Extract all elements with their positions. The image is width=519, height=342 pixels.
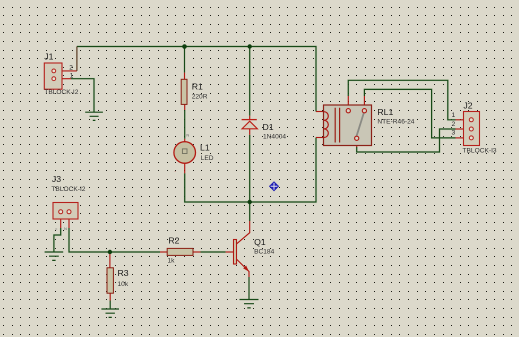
svg-text:RL1: RL1 <box>377 107 393 117</box>
svg-text:220R: 220R <box>192 93 208 100</box>
svg-text:1: 1 <box>452 112 456 119</box>
svg-text:L1: L1 <box>200 143 210 153</box>
svg-text:BC184: BC184 <box>254 249 274 256</box>
svg-text:10k: 10k <box>118 281 129 288</box>
svg-text:TBLOCK-I2: TBLOCK-I2 <box>44 89 78 96</box>
svg-text:J3: J3 <box>52 174 61 184</box>
svg-text:3: 3 <box>452 129 456 136</box>
svg-text:R2: R2 <box>168 235 179 245</box>
svg-text:D1: D1 <box>263 122 274 132</box>
svg-text:2: 2 <box>69 64 73 71</box>
svg-text:TBLOCK-I3: TBLOCK-I3 <box>463 148 497 155</box>
svg-text:1N4004: 1N4004 <box>263 134 286 141</box>
svg-text:R1: R1 <box>192 82 203 92</box>
svg-text:NTE-R46-24: NTE-R46-24 <box>377 119 414 126</box>
svg-text:N: N <box>64 226 67 231</box>
svg-text:TBLOCK-I2: TBLOCK-I2 <box>51 186 85 193</box>
svg-text:J2: J2 <box>463 100 472 110</box>
svg-text:J1: J1 <box>44 52 53 62</box>
svg-text:2: 2 <box>452 121 456 128</box>
svg-text:1: 1 <box>70 73 74 80</box>
svg-text:Q1: Q1 <box>254 237 266 247</box>
svg-text:N: N <box>186 133 189 138</box>
svg-text:R3: R3 <box>118 268 129 278</box>
svg-text:LED: LED <box>201 155 214 162</box>
svg-text:1k: 1k <box>168 258 176 265</box>
